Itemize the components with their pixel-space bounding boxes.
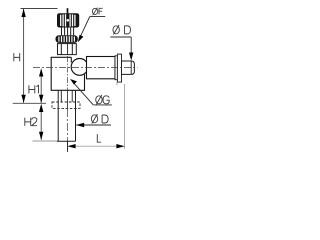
release flange [117, 54, 121, 82]
L label [97, 134, 101, 142]
H1 label [29, 85, 39, 93]
elbow body block [51, 57, 84, 90]
round boss circle on body [71, 59, 88, 76]
dimension L: line, arrows, right extension [67, 84, 124, 149]
OD label (right port) [113, 25, 131, 35]
mount face extension line [13, 102, 46, 104]
vertical centerline (knob/tube axis) [67, 56, 69, 152]
leader OD (right port) [110, 37, 133, 61]
release washer [115, 56, 117, 80]
OG label [96, 95, 109, 105]
tube bottom extension line [33, 140, 58, 142]
dimension H: extension line, line, arrows [21, 8, 58, 103]
knurled lock ring (black, striped) [56, 35, 78, 43]
knurled adjusting knob (black, striped) [57, 13, 79, 27]
side port cylinder [87, 57, 116, 79]
push-in stem with domed end [122, 61, 135, 74]
hidden hex (dashed box) [52, 102, 80, 108]
H label [14, 53, 20, 61]
horizontal centerline (side port axis) [33, 66, 138, 68]
plug leg tube bottom [57, 140, 76, 142]
leader OG [70, 79, 112, 105]
leader OF [78, 17, 105, 43]
dimension H1: line and arrows [39, 68, 43, 103]
centerline through hex nut [67, 44, 69, 55]
dimension H2: line and arrows [39, 104, 43, 140]
leader OD (plug leg) [76, 123, 111, 127]
tube centerline tail below tube [67, 141, 69, 151]
threaded neck below body [58, 90, 75, 141]
H2 label [25, 118, 37, 126]
screw shaft splines below knob [62, 28, 74, 36]
needle screw tip above knob [67, 8, 69, 13]
OD label (plug leg) [91, 114, 108, 124]
gray tick below washer [116, 82, 118, 85]
OF label [92, 8, 102, 16]
hex nut [58, 44, 77, 55]
